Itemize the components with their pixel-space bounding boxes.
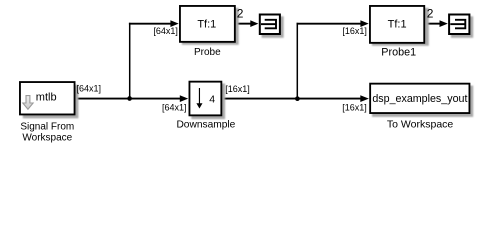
block Downsample: shadow — [191, 84, 225, 120]
arrowhead into Terminator — [250, 20, 258, 27]
block To Workspace: shadow — [372, 86, 473, 117]
svg-text:[64x1]: [64x1] — [77, 84, 102, 94]
wire: Downsample output to junction B — [222, 98, 298, 100]
block Probe1: shadow — [372, 8, 429, 46]
svg-text:dsp_examples_yout: dsp_examples_yout — [372, 93, 467, 105]
wire: junction A to Downsample input — [130, 98, 181, 100]
svg-text:Tf:1: Tf:1 — [197, 19, 216, 31]
wire: top-right horizontal to Probe1 input — [297, 23, 362, 25]
Terminator 1 icon: termination bracket — [265, 20, 276, 29]
svg-text:[64x1]: [64x1] — [153, 26, 178, 36]
block Signal From Workspace: gray down arrow icon — [23, 96, 33, 110]
arrowhead into Downsample — [180, 95, 188, 102]
svg-text:Downsample: Downsample — [176, 120, 235, 131]
svg-text:Probe1: Probe1 — [381, 46, 416, 58]
svg-text:4: 4 — [209, 94, 215, 106]
wire: top-left horizontal to Probe input — [129, 23, 171, 25]
Terminator 1 icon: signal line — [261, 23, 276, 25]
svg-text:Tf:1: Tf:1 — [388, 19, 407, 31]
svg-text:mtlb: mtlb — [36, 91, 57, 103]
svg-text:Probe: Probe — [194, 47, 221, 58]
junction B dot — [295, 96, 300, 101]
Terminator 2 icon: termination bracket — [455, 20, 465, 29]
svg-text:[16x1]: [16x1] — [342, 26, 367, 36]
svg-text:[64x1]: [64x1] — [162, 102, 187, 112]
svg-text:[16x1]: [16x1] — [225, 84, 250, 94]
svg-text:2: 2 — [427, 6, 434, 20]
block Downsample: body — [189, 82, 221, 116]
block Terminator 2: body — [449, 15, 469, 35]
arrowhead into To Workspace — [360, 95, 369, 102]
wire: Probe output to Terminator — [236, 23, 251, 25]
block Terminator 2: shadow — [451, 16, 473, 38]
block Probe: body — [180, 6, 235, 42]
junction A dot — [127, 96, 132, 101]
wire: Signal From Workspace output to junction A — [75, 98, 130, 100]
Downsample icon: down arrow shaft — [198, 88, 200, 104]
wire: junction B vertical up branch — [296, 23, 298, 100]
Downsample icon: down arrow head — [196, 103, 202, 108]
Terminator 2 icon: signal line — [450, 23, 465, 25]
svg-text:To Workspace: To Workspace — [387, 118, 453, 130]
block Signal From Workspace: body — [20, 82, 75, 114]
block Terminator 1: shadow — [262, 16, 284, 38]
arrowhead into Probe — [170, 20, 178, 27]
svg-text:Workspace: Workspace — [22, 133, 72, 144]
block Probe1: body — [370, 6, 424, 43]
block Probe: shadow — [182, 8, 239, 45]
wire: junction B to To Workspace input — [297, 98, 361, 100]
block Signal From Workspace: shadow — [23, 85, 79, 118]
wire: junction A vertical up branch — [129, 23, 131, 100]
block To Workspace: body — [370, 84, 469, 113]
arrowhead into second Terminator — [440, 20, 448, 27]
svg-text:2: 2 — [237, 6, 244, 20]
svg-text:Signal From: Signal From — [20, 121, 74, 132]
arrowhead into Probe1 — [360, 20, 368, 27]
wire: Probe1 output to second Terminator — [425, 23, 441, 25]
block Terminator 1: body — [260, 15, 280, 35]
svg-text:[16x1]: [16x1] — [342, 102, 367, 112]
